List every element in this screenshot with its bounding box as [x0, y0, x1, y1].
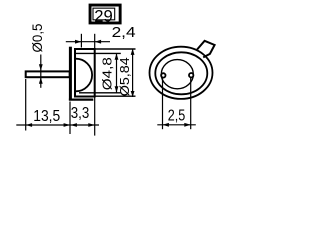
terminal dot left	[161, 73, 165, 77]
dimension Ø0,5 arrow down	[39, 64, 43, 70]
svg-text:2,5: 2,5	[168, 107, 186, 124]
dimension Ø5,84 text	[117, 57, 132, 96]
dimension 2,4 extension line A	[80, 34, 82, 48]
svg-text:29: 29	[94, 7, 113, 25]
part number box outer	[90, 5, 120, 23]
dimension Ø0,5 arrow up	[39, 77, 43, 83]
part number box inner	[93, 8, 115, 20]
dimension Ø5,84 line	[132, 49, 134, 98]
bottom dimension line	[16, 124, 99, 126]
dimension 2,4 arrow left	[95, 40, 101, 44]
svg-text:Ø4,8: Ø4,8	[99, 57, 114, 90]
extension line at lead end	[25, 79, 27, 131]
front view body ellipse (Ø4,8)	[155, 52, 207, 94]
wire lead (side view)	[26, 71, 70, 77]
bottom bar of flange	[69, 98, 93, 100]
dimension Ø4,8 arrows	[115, 53, 119, 59]
dimension 2,5 extension right	[190, 78, 192, 129]
front view inner circle	[161, 60, 193, 89]
svg-text:3,3: 3,3	[71, 105, 90, 122]
flange plate (side view)	[69, 47, 72, 101]
dimension 3,3 arrows	[71, 123, 77, 127]
dimension Ø0,5 text	[29, 23, 45, 52]
body cylinder (side view)	[75, 49, 95, 97]
index tab	[197, 41, 214, 58]
dimension Ø5,84 arrows	[131, 49, 135, 55]
inner top line (Ø4,8 extension)	[76, 52, 121, 54]
dimension Ø4,8 text	[99, 57, 114, 90]
inner bottom line (Ø4,8 extension)	[79, 92, 121, 94]
terminal dot right	[189, 73, 193, 77]
front view outer ellipse (flange Ø5,84)	[150, 47, 213, 99]
extension line at flange	[69, 102, 71, 135]
body bottom line right extension	[95, 95, 136, 97]
dimension 2,5 line	[157, 124, 196, 126]
technical drawing: lamp/LED part no. 29, side view + front view	[0, 0, 240, 140]
dome lens (side view)	[76, 59, 92, 92]
svg-text:13,5: 13,5	[33, 108, 60, 125]
dimension Ø0,5 leader line	[40, 55, 42, 88]
dimension Ø4,8 line	[116, 53, 118, 92]
body top line right extension	[95, 48, 136, 50]
dimension 2,4 arrow right	[75, 40, 81, 44]
dimension 2,5 extension left	[162, 78, 164, 129]
svg-text:Ø5,84: Ø5,84	[117, 57, 132, 96]
dimension 2,4 line	[66, 41, 110, 43]
svg-text:2,4: 2,4	[112, 25, 136, 41]
dimension 13,5 arrows	[26, 123, 32, 127]
dimension 2,5 arrows	[163, 123, 169, 127]
svg-text:Ø0,5: Ø0,5	[29, 23, 45, 52]
body right edge extension line	[94, 34, 96, 136]
